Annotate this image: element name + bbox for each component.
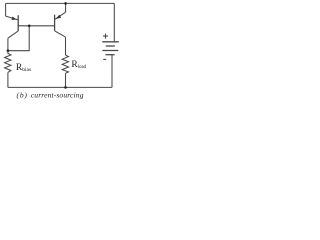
battery B1 plate 1 (long +) (102, 41, 119, 43)
wire top rail V+ (6, 2, 115, 4)
wire base rail Q1-Q2 (18, 25, 54, 27)
wire Q2 emitter vertical to top rail (65, 3, 67, 12)
junction dot R_load on bottom rail (64, 86, 67, 89)
wire Q2 collector vertical down to R_load (65, 37, 67, 55)
battery B1 plate 2 (short) (106, 45, 115, 47)
node A junction dot (bases to R_bias top) (7, 49, 10, 52)
resistor R_load (62, 55, 68, 73)
wire left vertical from top rail to Q1 emitter (5, 3, 7, 16)
wire base drop from rail to node A link (8, 26, 29, 51)
junction dot Q2 emitter on top rail (64, 2, 67, 5)
wire bottom rail (8, 86, 112, 88)
transistor Q1 (left PNP) (6, 15, 19, 38)
battery minus sign (103, 58, 106, 60)
junction dot on base rail (28, 25, 31, 28)
wire battery bottom stem (111, 55, 113, 88)
wire R_bias bottom leg (7, 72, 9, 87)
battery B1 plate 4 (short -) (106, 54, 115, 56)
battery plus sign (103, 34, 108, 39)
svg-text:current-sourcing: current-sourcing (31, 91, 84, 100)
battery B1 plate 3 (long) (102, 50, 118, 52)
transistor Q2 (right PNP) (55, 12, 66, 37)
svg-text:Rbias: Rbias (16, 63, 31, 73)
wire right vertical from top rail to battery + plate (113, 3, 115, 41)
wire Q1 collector vertical down to node A (7, 38, 9, 51)
wire R_load bottom leg (65, 73, 67, 87)
svg-text:Rload: Rload (71, 60, 86, 70)
svg-text:(b): (b) (17, 91, 28, 100)
resistor R_bias (5, 51, 11, 73)
